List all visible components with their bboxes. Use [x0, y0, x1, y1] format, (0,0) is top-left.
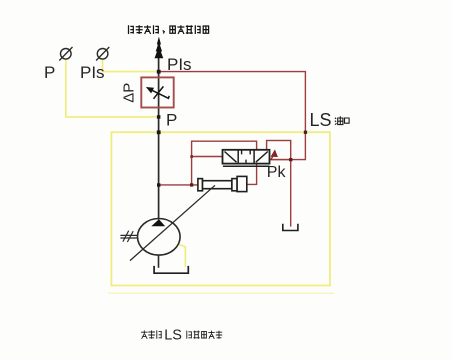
drive shaft — [120, 231, 137, 242]
wire: red P branch up and to valve top port — [192, 141, 257, 185]
junction node LS crossing — [304, 131, 307, 134]
bottom caption 基本的LS负载敏感型 (hand glyphs + LS) — [141, 330, 222, 338]
svg-text:PIs: PIs — [167, 55, 192, 74]
wire: main vertical P supply line — [158, 48, 160, 220]
tank T1 — [154, 266, 188, 273]
svg-text:P: P — [166, 111, 177, 130]
wire: yellow gauge-P line to main P line — [66, 59, 159, 117]
flow control valve box (dP valve) — [141, 77, 173, 107]
wire: yellow gauge-Pls line to Pls node — [103, 59, 159, 71]
wire: red LS line from Pls node to right and down — [160, 72, 306, 160]
junction node P to cylinder — [157, 183, 160, 186]
variable displacement diagonal link — [130, 185, 215, 260]
top caption 执行元件，马达或油缸 (hand glyphs) — [129, 25, 209, 34]
wire: red loop around pilot arrow (Pk spring box) — [267, 141, 291, 160]
wire: red valve bottom port to cylinder right end — [246, 162, 256, 184]
pump circle — [138, 219, 181, 256]
pilot arrow Pk — [271, 149, 278, 159]
valve underline — [223, 165, 270, 167]
svg-text:LS: LS — [310, 110, 332, 130]
pump outlet triangle — [151, 219, 165, 226]
wire: red branch to valve left port — [192, 156, 223, 158]
wire: red drain line down to tank T2 — [290, 160, 292, 227]
svg-text:P: P — [44, 63, 55, 82]
junction node drain — [289, 158, 292, 161]
svg-text:Pk: Pk — [267, 164, 287, 181]
svg-text:ΔP: ΔP — [121, 83, 138, 103]
pump suction line — [158, 255, 160, 268]
svg-text:LS: LS — [164, 327, 182, 343]
label 油口 (hand glyphs) — [335, 116, 349, 125]
stroke piston / control cylinder — [198, 176, 247, 191]
wire: yellow pump case drain to tank — [179, 244, 186, 267]
variable orifice symbol inside — [146, 86, 169, 98]
junction node at yellow box top — [157, 130, 161, 134]
svg-text:PIs: PIs — [80, 63, 105, 82]
pressure gauge P — [59, 47, 72, 61]
junction node P-gauge — [157, 115, 161, 119]
arrow to actuator — [155, 37, 164, 59]
tank T2 — [283, 224, 298, 231]
pressure gauge Pls — [96, 47, 109, 61]
junction node branch — [190, 183, 193, 186]
wire: pale yellow bottom line — [108, 292, 334, 294]
junction node Pls — [157, 70, 161, 74]
wire: red P line to compensator cylinder left — [159, 184, 198, 186]
compensator valve body — [223, 150, 270, 164]
wire: yellow boundary box of pump assembly — [111, 132, 330, 285]
